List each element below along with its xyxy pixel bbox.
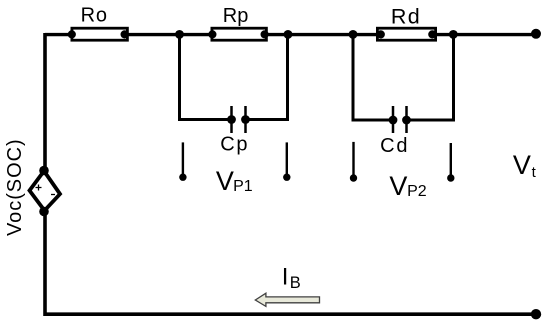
svg-text:I: I (282, 263, 289, 290)
svg-text:P1: P1 (233, 178, 253, 195)
svg-text:Rd: Rd (391, 4, 421, 28)
svg-text:V: V (216, 166, 234, 196)
svg-text:V: V (389, 171, 407, 201)
svg-text:Cp: Cp (220, 134, 249, 156)
svg-text:t: t (532, 164, 537, 181)
svg-text:Ro: Ro (81, 5, 108, 27)
svg-text:Voc(SOC): Voc(SOC) (4, 138, 26, 236)
svg-text:Cd: Cd (380, 135, 409, 157)
svg-text:V: V (513, 150, 531, 180)
svg-text:P2: P2 (407, 183, 427, 200)
svg-text:Rp: Rp (223, 5, 249, 27)
svg-text:B: B (290, 274, 301, 292)
